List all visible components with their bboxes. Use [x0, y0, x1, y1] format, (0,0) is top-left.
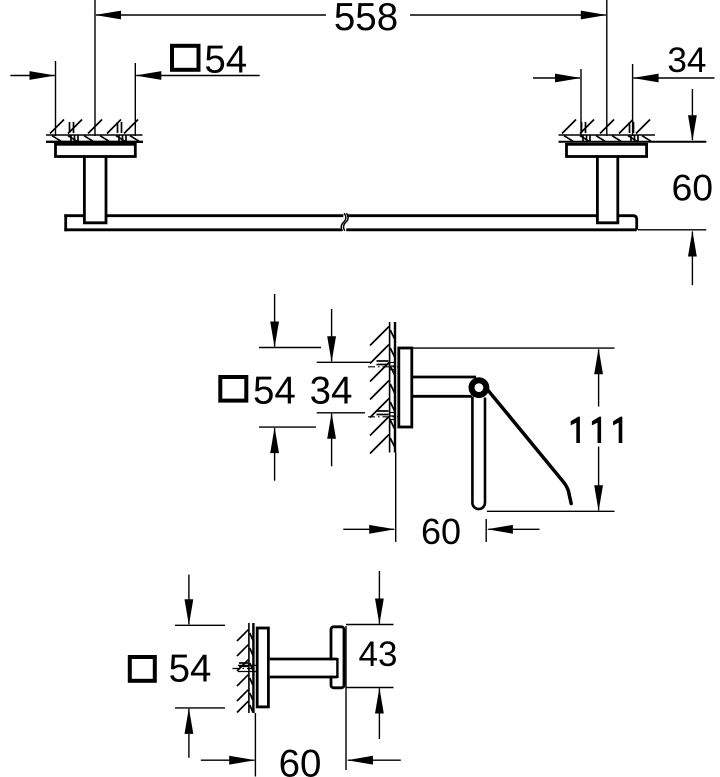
stem bottom edge: [270, 676, 338, 679]
arrow 60 down to wall: [688, 115, 697, 141]
hook parts: [257, 627, 344, 707]
ext lines 54 mid: [259, 347, 321, 349]
wall hatching right mount: [562, 120, 651, 142]
right wall plate: [567, 144, 647, 156]
wall plate mid: [399, 348, 412, 427]
arm top edge: [412, 376, 476, 379]
arrow 558 left: [95, 11, 121, 20]
square symbol top: [172, 46, 199, 70]
flap: [487, 389, 571, 504]
square symbol hook: [130, 657, 155, 681]
bar bottom edge: [64, 228, 342, 231]
square symbol mid: [220, 377, 246, 401]
dimension texts mid: [253, 369, 461, 552]
wall surface lines hook: [249, 623, 254, 713]
dimension tails 34: [533, 77, 580, 79]
dim lines 43: [378, 571, 380, 624]
svg-text:43: 43: [359, 635, 398, 674]
dim line 111: [598, 349, 600, 406]
ext lines 43: [346, 624, 394, 626]
svg-text:34: 34: [310, 369, 353, 412]
dimension line 558: [96, 14, 326, 16]
paper holder parts: [399, 348, 476, 427]
dimension tails 54 top: [10, 75, 54, 77]
bar left end: [64, 214, 67, 231]
arrow 34 left (points right): [555, 74, 581, 83]
svg-text:60: 60: [672, 167, 714, 209]
wall plate hook: [257, 628, 268, 707]
right post: [596, 157, 599, 223]
label 111 drawn as footless digits: [571, 417, 623, 443]
bar break squiggle (double line): [341, 213, 346, 231]
dim line 60 mid: [343, 528, 394, 530]
svg-text:558: 558: [334, 0, 398, 39]
dimension texts hook: [169, 635, 398, 777]
screw centerline lower: [368, 416, 399, 418]
stem mask: [270, 660, 336, 675]
svg-text:54: 54: [253, 369, 296, 412]
left post: [83, 157, 86, 223]
arrow 54 left (points right): [30, 71, 56, 80]
svg-text:54: 54: [169, 648, 212, 691]
bar top edge: [64, 214, 84, 217]
svg-text:54: 54: [204, 39, 247, 82]
dimension texts top: [204, 0, 713, 209]
ext lines 54 hook: [175, 624, 225, 626]
arm bottom edge: [412, 395, 472, 398]
hook right edge extension: [345, 626, 347, 770]
dim lines 54 mid: [274, 294, 276, 347]
wall surface lines left mount: [46, 135, 143, 142]
arrowheads mid: [270, 322, 603, 534]
roller bar: [472, 396, 485, 509]
arrow 34 right (points left): [633, 74, 659, 83]
ext line 60 right: [485, 519, 487, 542]
arrowheads top section: [30, 11, 697, 257]
wall hatching left mount: [50, 120, 139, 142]
extension line left of 558: [94, 0, 96, 136]
extension lines 34 top right: [580, 69, 582, 136]
dimension line 60 right side: [691, 89, 693, 140]
svg-text:34: 34: [667, 41, 706, 80]
dim lines 54 hook: [188, 575, 190, 625]
extension line right of 558: [606, 0, 608, 136]
dim lines 34 mid: [331, 309, 333, 361]
towel bar parts: [56, 144, 647, 231]
wall hatching mid (vertical strip): [370, 327, 395, 454]
wall surface lines right mount: [559, 135, 707, 142]
screw centerline hook: [233, 668, 258, 670]
bar right end: [618, 216, 637, 230]
screw centerline upper: [368, 366, 399, 368]
wall surface extension down: [395, 453, 397, 542]
svg-text:60: 60: [279, 743, 322, 777]
stem end cap: [336, 658, 338, 678]
extension line bar bottom to 60 arrow: [638, 229, 706, 231]
wall line extension bottom: [254, 713, 256, 777]
ext lines 34 mid: [317, 361, 372, 363]
extension lines 54 top left: [55, 61, 57, 136]
ext line 111 top: [412, 347, 615, 349]
stem top edge: [270, 658, 338, 661]
arrowheads hook: [185, 599, 384, 765]
pivot ring: [472, 380, 487, 395]
arrow 60 up to bar bottom: [688, 231, 697, 257]
wall hatching hook (vertical strip): [237, 630, 253, 713]
left wall plate: [56, 144, 136, 156]
dim line 60 hook: [201, 759, 254, 761]
svg-text:60: 60: [421, 511, 461, 552]
arrow 54 right (points left): [135, 71, 161, 80]
hook front bar: [331, 627, 344, 688]
ext line 111 bottom: [487, 510, 615, 512]
wall surface lines mid: [390, 322, 395, 453]
arrow 558 right: [581, 11, 607, 20]
